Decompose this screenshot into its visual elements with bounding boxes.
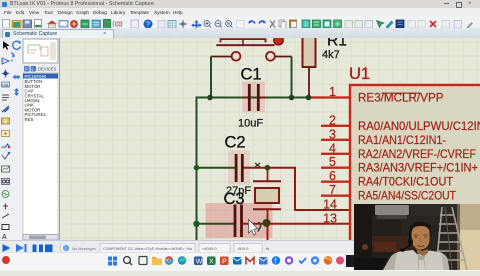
pin name RA1 <box>358 132 446 146</box>
svg-text:th: th <box>266 246 269 251</box>
selection highlight C1 <box>242 81 265 112</box>
svg-text:C2: C2 <box>225 133 246 151</box>
orientation strip <box>11 38 22 241</box>
junction <box>194 164 200 170</box>
crystal X1 <box>253 167 281 223</box>
pin 7 stub <box>321 194 350 196</box>
wire <box>267 223 269 240</box>
svg-text:6: 6 <box>329 169 336 183</box>
IC U1 <box>350 85 480 263</box>
label R1 <box>327 32 347 49</box>
svg-text:W: W <box>196 259 203 266</box>
selection highlight C3 <box>206 203 273 238</box>
svg-text:+4000.0: +4000.0 <box>202 246 217 251</box>
svg-text:C1: C1 <box>241 65 262 83</box>
capacitor C2 <box>235 154 244 182</box>
svg-text:DEVICES: DEVICES <box>38 66 57 71</box>
status/sim bar <box>0 240 480 253</box>
label U1 <box>349 65 370 83</box>
svg-text:13: 13 <box>323 211 337 225</box>
pin name RA4 <box>358 174 454 188</box>
wire <box>244 167 351 209</box>
wire <box>197 96 309 98</box>
wire <box>197 222 234 224</box>
svg-text:4: 4 <box>329 141 336 155</box>
svg-text:2: 2 <box>329 113 336 127</box>
svg-text:7: 7 <box>329 183 336 197</box>
pin number 5 <box>329 155 336 169</box>
svg-text:RA4/T0CKI/C1OUT: RA4/T0CKI/C1OUT <box>358 174 454 188</box>
wire <box>210 56 212 96</box>
svg-text:3: 3 <box>329 127 336 141</box>
pin number 4 <box>329 141 336 155</box>
junction <box>265 164 271 170</box>
left mode toolbar <box>0 38 12 241</box>
taskbar <box>0 252 480 271</box>
svg-text:RA5/AN4/SS/C2OUT: RA5/AN4/SS/C2OUT <box>358 188 457 202</box>
svg-text:P: P <box>25 66 28 71</box>
push button SW <box>211 39 292 61</box>
svg-text:RA3/AN3/VREF+/C1IN+: RA3/AN3/VREF+/C1IN+ <box>358 160 478 174</box>
svg-text:PIC16F690: PIC16F690 <box>25 73 47 78</box>
svg-text:RES: RES <box>25 116 34 121</box>
label 27pF <box>226 185 251 197</box>
svg-text:4k7: 4k7 <box>322 49 340 61</box>
svg-text:LBL: LBL <box>2 82 10 87</box>
pin number 3 <box>329 127 336 141</box>
svg-text:No Messages: No Messages <box>72 246 96 251</box>
junction <box>263 219 271 227</box>
wire <box>243 222 350 224</box>
menu bar <box>0 8 480 16</box>
svg-text:U1: U1 <box>349 65 370 83</box>
label 4k7 <box>322 49 340 61</box>
pin name RE3/MCLR/VPP <box>358 90 444 104</box>
capacitor C3 <box>234 204 243 237</box>
pin 4 stub <box>321 152 350 154</box>
svg-text:RA1/AN1/C12IN1-: RA1/AN1/C12IN1- <box>358 132 446 146</box>
wire <box>309 96 351 98</box>
resistor R1 <box>303 36 316 96</box>
selection highlight C2 <box>228 150 250 184</box>
toolbar <box>0 16 480 29</box>
svg-text:C3: C3 <box>224 190 245 208</box>
pin number 14 <box>323 197 337 211</box>
pin 2 stub <box>321 124 350 126</box>
label 10uF <box>238 117 263 129</box>
pin number 1 <box>329 85 336 99</box>
pin name RA3 <box>358 160 478 174</box>
svg-text:5: 5 <box>329 155 336 169</box>
main canvas svg (full-image coordinates) <box>0 38 480 241</box>
junction <box>193 220 199 226</box>
svg-text:COMPONENT C3, Value=27pF, Modu: COMPONENT C3, Value=27pF, Module=<NONE>,… <box>103 246 192 251</box>
wire <box>197 166 235 168</box>
svg-text:X: X <box>209 259 214 266</box>
svg-text:1: 1 <box>329 85 336 99</box>
svg-text:f: f <box>275 259 277 266</box>
svg-text:14: 14 <box>323 197 337 211</box>
label C2 <box>225 133 246 151</box>
pin 6 stub <box>321 180 350 182</box>
wire <box>196 96 198 240</box>
wire <box>291 56 293 96</box>
button state indicator <box>274 35 284 45</box>
pin name RA2 <box>358 146 476 160</box>
svg-text:P: P <box>222 259 227 266</box>
mouse cursor <box>249 219 261 235</box>
pin 5 stub <box>321 166 350 168</box>
title bar <box>0 0 480 9</box>
pin number 2 <box>329 113 336 127</box>
object selector <box>22 38 60 241</box>
svg-text:RA0/AN0/ULPWU/C12IN0-: RA0/AN0/ULPWU/C12IN0- <box>358 118 480 132</box>
pin number 6 <box>329 169 336 183</box>
pin name RA5 <box>358 188 457 202</box>
webcam overlay <box>354 204 480 270</box>
junction <box>289 94 295 100</box>
junction <box>207 94 213 100</box>
svg-text:R1: R1 <box>327 38 347 50</box>
svg-text:-800.0: -800.0 <box>237 246 249 251</box>
svg-text:A: A <box>2 234 7 240</box>
junction <box>306 94 312 100</box>
tab bar <box>0 28 480 39</box>
label C3 <box>224 190 245 208</box>
pin name RA0 <box>358 118 480 132</box>
pin 3 stub <box>321 138 350 140</box>
capacitor C1 <box>243 84 265 111</box>
svg-text:RA2/AN2/VREF-/CVREF: RA2/AN2/VREF-/CVREF <box>358 146 476 160</box>
wire marker <box>255 163 260 167</box>
svg-text:10uF: 10uF <box>238 117 263 129</box>
label C1 <box>241 65 262 83</box>
pin number 13 <box>323 211 337 225</box>
pin number 7 <box>329 183 336 197</box>
